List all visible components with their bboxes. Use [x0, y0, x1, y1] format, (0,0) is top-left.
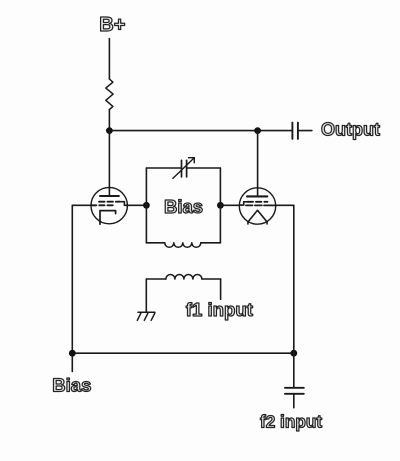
ground symbol	[137, 312, 155, 320]
bias tank top wire (right of C2)	[187, 167, 220, 169]
wire right rail vertical down	[293, 205, 295, 387]
wire left rail vertical down	[71, 205, 73, 371]
inductor L1 (tank coil, bumps down)	[165, 243, 201, 248]
bias tank top wire (left of C2)	[146, 167, 180, 169]
wire from top rail down to V1 plate	[108, 131, 110, 196]
bias tank right vertical wire	[219, 168, 221, 243]
wire f1 coil left end down to ground	[145, 279, 147, 312]
inductor L2 (f1 input coil, bumps up)	[146, 275, 220, 280]
svg-text:Output: Output	[321, 119, 380, 139]
capacitor C1 (output coupling)	[292, 123, 298, 139]
svg-text:f2 input: f2 input	[260, 411, 322, 431]
node junction top-right (rail / V2 plate)	[254, 127, 261, 134]
wire V1 grid2 to left rail	[72, 204, 96, 206]
tube V1 (left triode-hexode section)	[91, 187, 128, 224]
filament cathode of V2	[248, 210, 267, 224]
wire bottom rail	[72, 352, 293, 354]
plate of V2	[247, 195, 267, 197]
svg-text:f1 input: f1 input	[186, 299, 253, 320]
capacitor C2 (variable, tank tuning)	[173, 158, 194, 179]
plate of V1	[100, 195, 119, 197]
wire from C1 to Output label	[298, 130, 312, 132]
grid 2 of V2 (lower, dashed, to right wire)	[246, 204, 253, 206]
wire f1 coil right end down to f1 input terminal	[220, 279, 222, 299]
wire top rail	[109, 130, 292, 132]
wire from resistor to top rail	[108, 110, 110, 131]
grid 2 of V1 (lower, dashed, from left wire)	[91, 204, 115, 206]
node junction bottom-right (f2 input)	[290, 350, 297, 357]
bias tank left vertical wire	[145, 168, 147, 243]
svg-text:Bias: Bias	[52, 374, 91, 395]
cathode of V1	[100, 211, 116, 225]
svg-text:Bias: Bias	[164, 196, 203, 217]
svg-text:B+: B+	[99, 14, 125, 36]
wire from B+ down to resistor	[108, 39, 110, 79]
wire from top rail down to V2 plate	[257, 131, 259, 197]
grid 1 lead step from left	[240, 202, 249, 205]
grid 1 lead step to right	[119, 202, 129, 206]
resistor R1 (plate load)	[106, 79, 113, 110]
node junction bias tank left	[143, 202, 150, 209]
grid 1 of V1 (upper, dashed)	[99, 201, 120, 203]
wire V1 grid1 to bias tank left	[127, 204, 146, 206]
wire V2 grid2 to right rail	[276, 204, 294, 206]
bias tank bottom wire with inductor L1	[146, 243, 220, 248]
tube V2 (right tube, filament type)	[239, 188, 276, 224]
node junction bias tank right	[217, 202, 224, 209]
capacitor C3 (f2 input coupling)	[285, 388, 304, 394]
wire C3 to f2 input terminal	[293, 394, 295, 408]
grid 1 of V2 (upper, dashed)	[248, 201, 268, 203]
wire bias tank right to V2 grid1	[220, 204, 240, 206]
node junction bottom-left (bias feed)	[69, 350, 76, 357]
node junction top-left (resistor / rail)	[106, 127, 113, 134]
